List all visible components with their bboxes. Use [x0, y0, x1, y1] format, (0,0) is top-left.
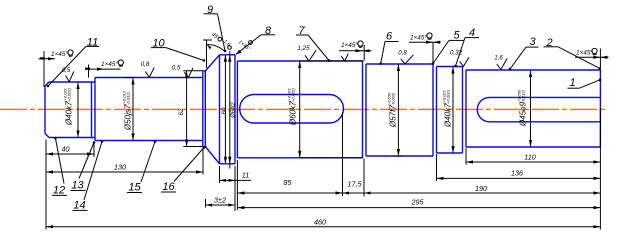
- svg-text:13: 13: [71, 180, 84, 192]
- dim 11 (collar width): [220, 171, 252, 182]
- cone angle text 45 deg: [210, 32, 221, 43]
- svg-text:+0,002): +0,002): [67, 87, 72, 101]
- extension line slot right (x342.5): [342, 112, 344, 196]
- roughness 0,32 on G: [450, 50, 469, 67]
- roughness 1,25 on E: [297, 45, 316, 61]
- extension line right face (x600.4): [599, 108, 601, 230]
- cone transition: [205, 55, 219, 164]
- black tick on F bottom edge: [394, 155, 404, 157]
- chamfer callout 1x45 at A left: [39, 50, 74, 87]
- extension line G left (x436.5): [436, 154, 438, 181]
- section H outline (right end with open keyway): [466, 70, 600, 147]
- svg-text:5: 5: [453, 30, 460, 42]
- svg-text:1,25: 1,25: [297, 45, 310, 52]
- svg-text:1×45°: 1×45°: [341, 41, 359, 49]
- dim 295: [237, 198, 600, 210]
- position label 16: [161, 146, 205, 193]
- svg-text:15: 15: [128, 182, 141, 194]
- svg-text:85: 85: [284, 178, 293, 187]
- svg-text:Ø40k7: Ø40k7: [65, 101, 74, 126]
- position label 1: [568, 77, 602, 89]
- extension line left (x46): [45, 140, 47, 230]
- position label 2: [544, 37, 602, 70]
- svg-text:0,8: 0,8: [398, 50, 407, 57]
- extension line E right (x364): [363, 159, 365, 197]
- svg-text:-0,112): -0,112): [521, 89, 526, 102]
- position label 13: [71, 141, 96, 191]
- open keyway slot in section H: [477, 97, 600, 121]
- position label 3: [509, 36, 539, 70]
- diameter dim section F: [387, 64, 401, 156]
- diameter dim section B: [122, 78, 135, 141]
- svg-text:Ø64t2: Ø64t2: [231, 101, 237, 118]
- svg-text:295: 295: [411, 198, 425, 207]
- svg-text:Ø45e9: Ø45e9: [519, 101, 528, 127]
- extension line D right (x235): [234, 166, 236, 211]
- dim 3±2: [206, 196, 235, 208]
- dim 130: [46, 163, 203, 174]
- svg-text:40: 40: [62, 145, 70, 154]
- roughness 0,8 on B: [141, 61, 155, 77]
- position label 7: [296, 25, 330, 62]
- dim 17,5: [343, 180, 371, 195]
- black overlay on E bottom edge: [300, 157, 363, 159]
- section E outline (large keyway section): [237, 61, 362, 158]
- svg-text:110: 110: [524, 153, 535, 162]
- rotated chamfer note on collar left: [222, 39, 231, 48]
- svg-text:1×45°: 1×45°: [410, 34, 428, 42]
- svg-text:17,5: 17,5: [348, 180, 363, 189]
- extension line B right (x203): [202, 149, 204, 175]
- svg-text:12: 12: [53, 184, 65, 196]
- section B outline: [95, 71, 205, 147]
- chamfer callout 1x45 at F right: [409, 33, 441, 64]
- svg-text:4: 4: [469, 27, 475, 39]
- svg-text:62: 62: [178, 108, 185, 115]
- svg-text:+0,002): +0,002): [291, 87, 296, 101]
- extension line H left (x466): [465, 148, 467, 165]
- dim 110 (keyway): [466, 153, 600, 164]
- position label 9: [204, 4, 227, 53]
- svg-text:14: 14: [73, 199, 85, 211]
- black overlay on E top edge: [300, 60, 364, 62]
- svg-text:11: 11: [242, 171, 249, 180]
- roughness 0,5 on B right: [172, 65, 193, 78]
- diameter dim section H: [517, 70, 533, 147]
- keyway slot in section E: [240, 95, 344, 124]
- diameter dim section G: [442, 67, 455, 154]
- cone angle dim arc: [207, 44, 225, 51]
- dim 460: [46, 217, 600, 228]
- collar D outline: [220, 55, 236, 164]
- svg-text:60: 60: [221, 107, 228, 114]
- rotated chamfer note 1x45 near collar right: [237, 39, 251, 52]
- position label 10: [151, 38, 205, 62]
- cone angle dim 45 deg: reference line: [206, 40, 208, 68]
- extension line A right (x94): [93, 142, 95, 157]
- svg-text:1×45°: 1×45°: [51, 50, 69, 58]
- dim 60 (collar): [221, 55, 228, 164]
- dim 136: [437, 169, 601, 181]
- svg-text:1: 1: [569, 77, 575, 89]
- svg-text:0,5: 0,5: [172, 65, 181, 72]
- section A outline (left journal): [45, 82, 95, 138]
- svg-text:3±2: 3±2: [214, 196, 226, 205]
- svg-text:Ø40k7: Ø40k7: [444, 103, 453, 128]
- position label 6: [379, 31, 398, 65]
- position label 8: [236, 25, 275, 55]
- roughness 0,5 on A: [62, 67, 74, 82]
- centerline (orange dash-dot axis): [0, 108, 608, 110]
- dim 190: [364, 184, 600, 195]
- chamfer callout 1x45 at E right: [339, 41, 372, 61]
- svg-text:460: 460: [314, 217, 326, 226]
- svg-text:190: 190: [475, 184, 487, 193]
- position label 15: [127, 140, 156, 193]
- position label 4: [454, 27, 479, 67]
- svg-text:130: 130: [114, 163, 126, 172]
- svg-text:3: 3: [529, 36, 536, 48]
- svg-text:+0,002): +0,002): [446, 89, 451, 103]
- chamfer callout 1x45 at B left: [85, 60, 123, 78]
- chamfer callout 1x45 at H right: [575, 48, 609, 69]
- dim &#216;64t2 (collar): [228, 51, 236, 169]
- svg-text:136: 136: [511, 169, 523, 178]
- svg-text:16: 16: [162, 181, 175, 193]
- diameter dim section E: [287, 61, 302, 158]
- section F outline: [366, 64, 433, 156]
- section G outline (journal): [437, 67, 463, 154]
- position label 14: [73, 140, 104, 211]
- position label 12: [52, 137, 67, 197]
- svg-text:Ø60k7: Ø60k7: [289, 101, 298, 126]
- svg-text:1×45°: 1×45°: [576, 49, 594, 57]
- svg-text:-0,012): -0,012): [126, 91, 131, 104]
- roughness 1,6 on H: [494, 55, 507, 70]
- dim 62 (cone base): [178, 71, 206, 147]
- extension line E left (x237.4): [236, 160, 238, 210]
- svg-text:1×45°: 1×45°: [101, 60, 119, 68]
- dim 40: [46, 145, 94, 156]
- position label 5: [432, 30, 464, 65]
- svg-text:6: 6: [386, 31, 393, 43]
- roughness mark at E right: [341, 54, 348, 61]
- dim 85 (keyway position): [237, 178, 342, 195]
- svg-text:0,8: 0,8: [141, 61, 150, 68]
- extension line D left (x219.5): [219, 166, 221, 183]
- cone angle dim tick: [203, 39, 212, 41]
- svg-text:Ø57f7: Ø57f7: [389, 105, 398, 128]
- position label 11: [47, 36, 99, 87]
- svg-text:-0,060): -0,060): [391, 92, 396, 105]
- diameter dim section A: [63, 82, 80, 138]
- black tick on B top edge: [125, 77, 136, 79]
- svg-text:Ø50js7: Ø50js7: [124, 104, 133, 131]
- svg-text:1,6: 1,6: [494, 55, 503, 62]
- roughness 0,8 on F: [398, 50, 413, 65]
